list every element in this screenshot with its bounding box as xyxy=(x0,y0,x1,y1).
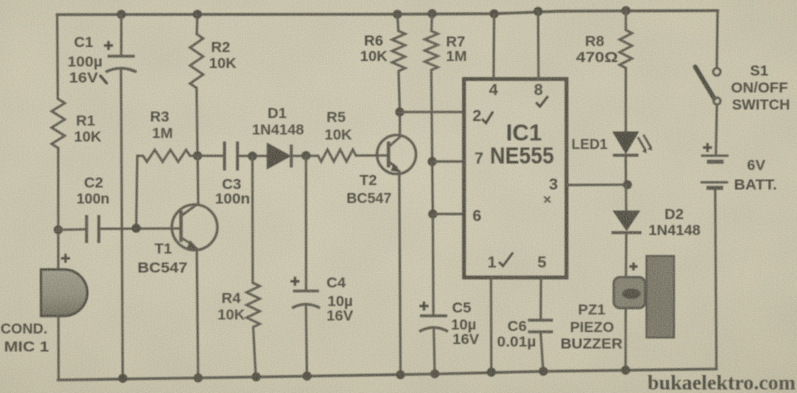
node pin 7 junction xyxy=(428,157,437,166)
wire pin 5 xyxy=(540,278,543,320)
diode D2 xyxy=(625,185,628,211)
node T1 emitter on ground rail xyxy=(194,373,203,382)
node R7 top xyxy=(428,9,437,18)
LED LED1 xyxy=(614,132,638,152)
wire pin 6 xyxy=(433,213,464,215)
wire pin 1 to ground xyxy=(490,278,493,373)
node buzzer on ground rail xyxy=(621,366,630,375)
wire switch to battery xyxy=(716,105,717,155)
capacitor C1 xyxy=(120,14,123,55)
switch S1 xyxy=(713,68,720,75)
wire pin 3 output xyxy=(567,183,628,186)
transistor T2 xyxy=(377,135,416,174)
node R2 top xyxy=(193,10,202,19)
capacitor C3 xyxy=(223,142,226,171)
buzzer PZ1 body xyxy=(647,256,675,338)
wire left rail upper segment xyxy=(56,15,59,99)
wire buzzer to ground xyxy=(624,308,627,370)
wire bottom ground rail xyxy=(58,369,717,380)
wire top supply rail xyxy=(57,11,718,15)
resistor R5 xyxy=(318,150,356,162)
resistor R7 xyxy=(430,14,433,31)
wire pin 7 xyxy=(432,160,464,162)
wire top rail right corner down to switch xyxy=(716,11,719,68)
node pin 6 junction xyxy=(428,209,437,218)
node C1 bottom on ground rail xyxy=(118,374,127,383)
node pin 8 top rail xyxy=(534,7,543,16)
node T1 collector / R2 / R3 / C3 junction xyxy=(193,151,202,160)
node C3 / D1 / R4 junction xyxy=(248,152,257,161)
resistor R4 xyxy=(251,156,254,283)
node C6 bottom on ground rail xyxy=(539,367,548,376)
wire pin 8 xyxy=(537,11,540,79)
node C5 bottom on ground rail xyxy=(430,369,439,378)
capacitor C5 xyxy=(432,214,435,315)
node T2 collector / pin2 junction xyxy=(395,107,404,116)
node R8 top xyxy=(621,6,630,15)
resistor R6 xyxy=(397,14,398,31)
resistor R3 xyxy=(136,156,143,228)
wire pin 4 xyxy=(492,14,495,79)
battery 6V xyxy=(703,143,712,152)
wire left rail lower segment xyxy=(57,316,60,380)
microphone MIC1 xyxy=(41,270,87,317)
node R6 top xyxy=(393,10,402,19)
node pin3 / LED1 / D2 junction xyxy=(623,180,632,189)
resistor R8 xyxy=(625,11,628,30)
node R4 bottom on ground rail xyxy=(252,372,261,381)
node D1 / R5 / C4 junction xyxy=(301,151,310,160)
diode D1 xyxy=(268,144,290,168)
node pin 4 top rail xyxy=(490,9,499,18)
node T2 emitter on ground rail xyxy=(396,370,405,379)
wire left rail middle segment xyxy=(57,148,59,270)
buzzer PZ1 element xyxy=(614,277,645,308)
node pin 1 on ground rail xyxy=(487,368,496,377)
resistor R2 xyxy=(196,14,199,34)
capacitor C4 xyxy=(305,156,308,290)
wire battery to ground rail corner xyxy=(715,190,716,370)
node C4 bottom on ground rail xyxy=(302,371,311,380)
node mic / C2 junction xyxy=(54,225,63,234)
node T1 base junction xyxy=(132,224,141,233)
capacitor C6 xyxy=(528,319,553,322)
node C1 top xyxy=(117,10,126,19)
op-amp/timer IC1 NE555 box xyxy=(464,79,567,278)
wire R7 column to pin 6 xyxy=(431,162,434,215)
capacitor C2 xyxy=(58,228,84,231)
resistor R1 xyxy=(52,99,65,148)
wire pin 2 xyxy=(400,111,464,113)
transistor T1 xyxy=(172,205,218,251)
